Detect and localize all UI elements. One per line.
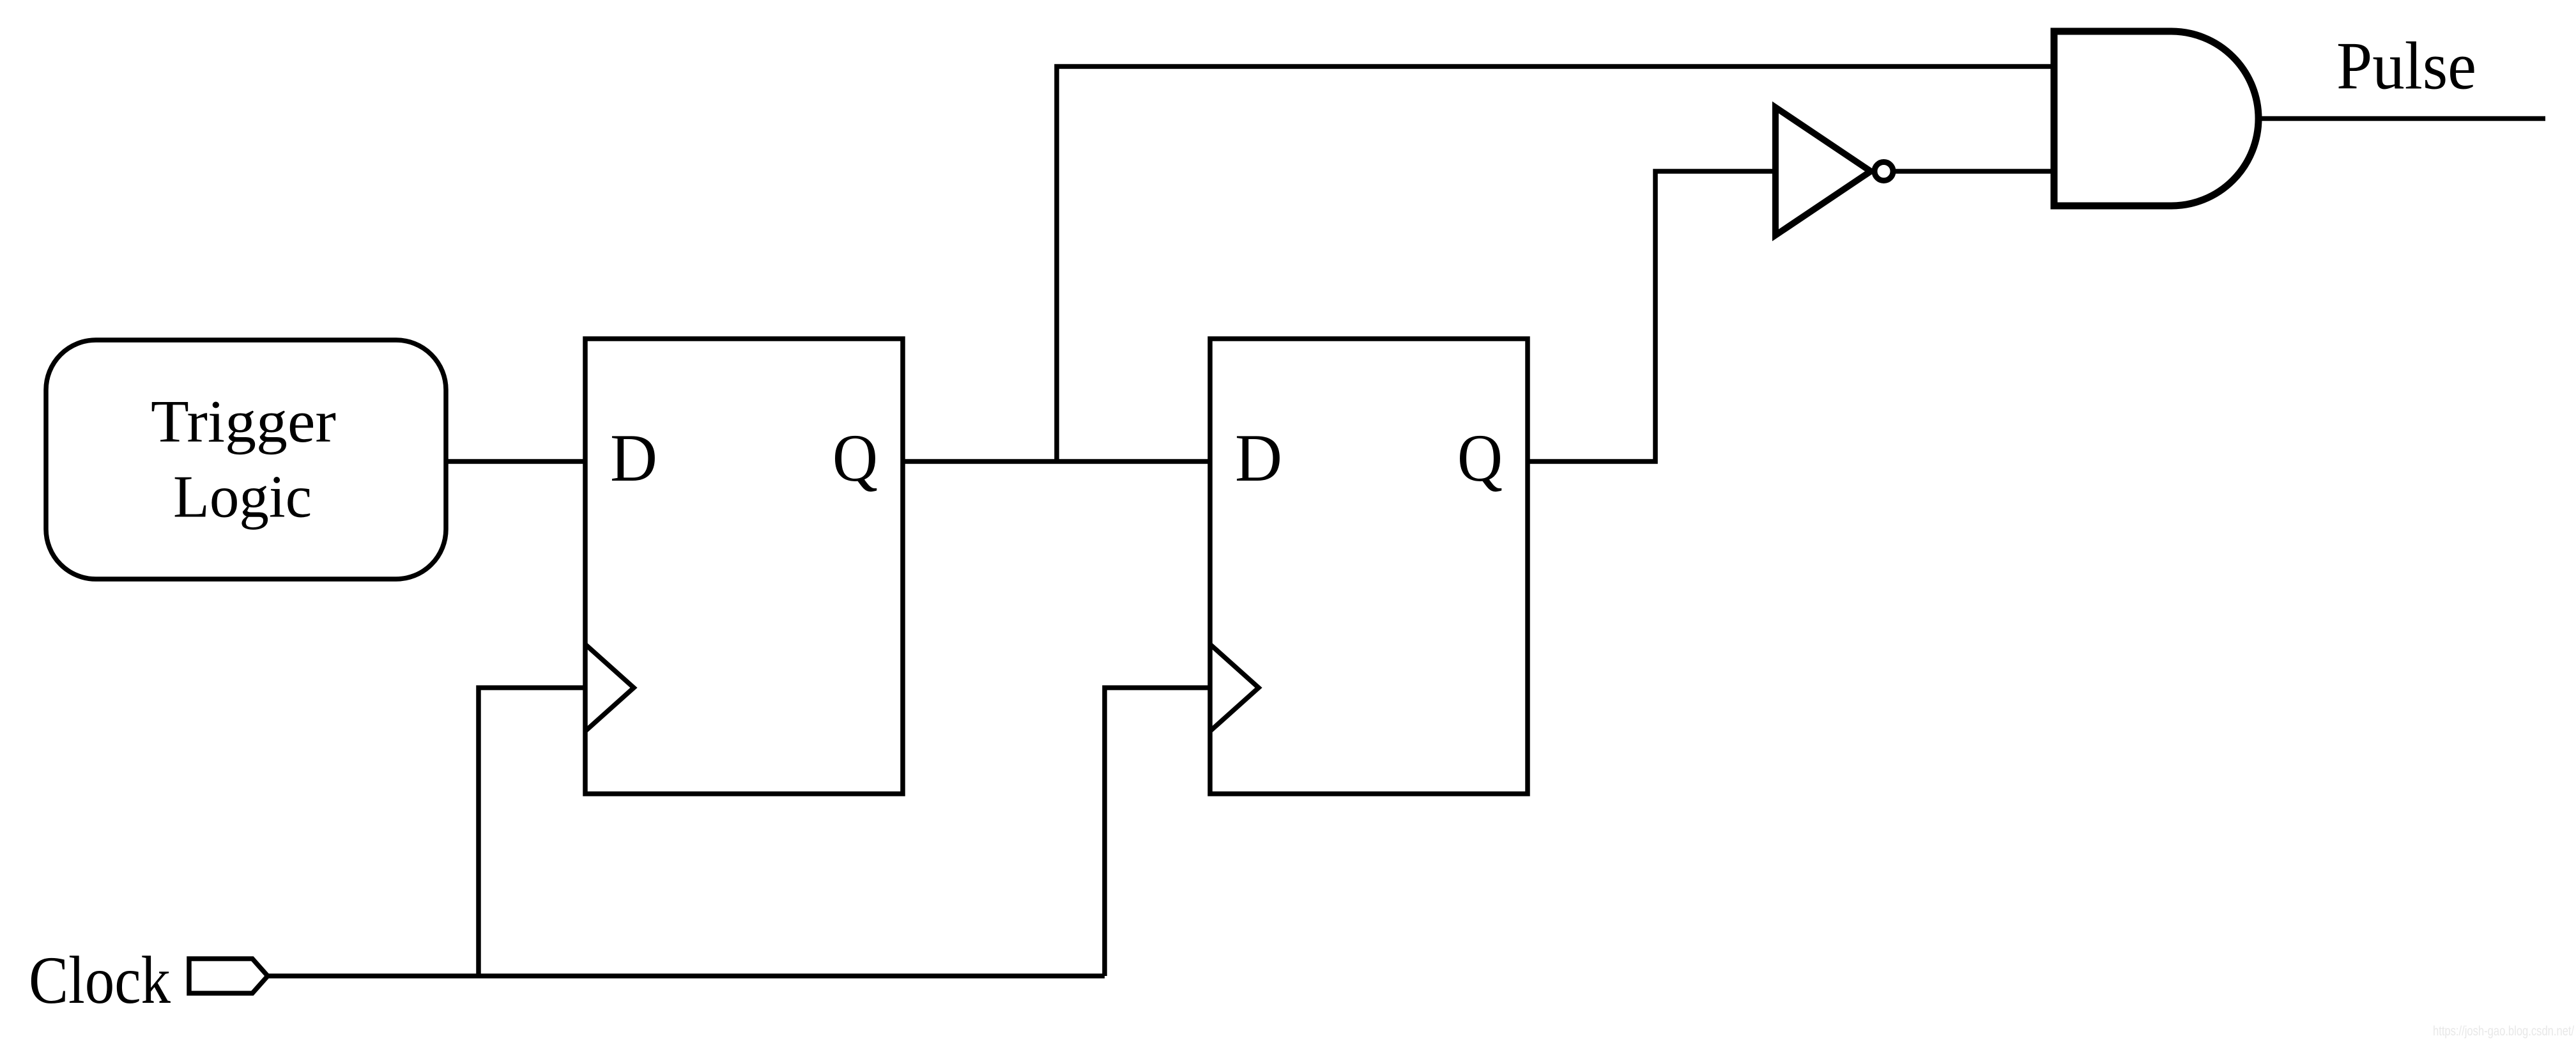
svg-text:Logic: Logic bbox=[173, 464, 312, 530]
svg-text:D: D bbox=[610, 421, 657, 495]
svg-text:D: D bbox=[1235, 421, 1282, 495]
svg-text:Q: Q bbox=[832, 421, 878, 495]
svg-text:Clock: Clock bbox=[29, 943, 171, 1018]
svg-text:Pulse: Pulse bbox=[2336, 28, 2476, 103]
svg-text:Q: Q bbox=[1457, 421, 1503, 495]
svg-text:https://josh-gao.blog.csdn.net: https://josh-gao.blog.csdn.net/ bbox=[2433, 1024, 2575, 1039]
svg-text:Trigger: Trigger bbox=[151, 389, 336, 455]
